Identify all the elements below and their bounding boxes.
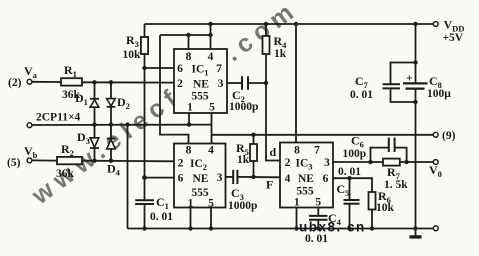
svg-text:555: 555: [191, 187, 209, 199]
junction dots Vb line: [92, 159, 113, 163]
svg-text:0. 01: 0. 01: [150, 211, 173, 223]
svg-text:1: 1: [294, 197, 300, 209]
svg-text:2CP11×4: 2CP11×4: [36, 112, 80, 124]
label R4 1k: [274, 34, 288, 60]
diode D2: [107, 82, 116, 124]
wire Va line to IC1 pin 2: [82, 81, 174, 83]
junction dots on VDD rail: [208, 22, 417, 26]
label C3 1000p: [228, 186, 257, 212]
label C5: [337, 182, 350, 198]
svg-text:4: 4: [208, 51, 214, 63]
wire x127.5 vertical to bottom rail: [127, 125, 129, 229]
capacitor C6: [371, 138, 407, 162]
svg-text:+5V: +5V: [443, 32, 464, 44]
IC1 pin and name texts: [177, 51, 224, 114]
svg-text:4: 4: [285, 173, 291, 185]
IC3 pin and name texts: [285, 145, 331, 209]
wire IC3 pin 1 to bottom rail: [296, 208, 298, 229]
watermark www.elecfans.com: [26, 0, 304, 210]
label C8 100u: [406, 73, 451, 101]
op-amp IC3 555 box: [280, 143, 333, 208]
wire IC2 pins 1,5 to bottom rail: [191, 208, 212, 229]
wire bottom ground rail: [128, 228, 434, 230]
resistor R7: [383, 159, 400, 166]
svg-text:0. 01: 0. 01: [350, 89, 373, 101]
svg-text:NE: NE: [193, 173, 209, 185]
svg-text:(5): (5): [7, 157, 21, 169]
svg-text:ubx8. cn: ubx8. cn: [299, 220, 366, 235]
wire Vb line to IC2 pin 2: [82, 160, 174, 163]
label D1: [75, 91, 88, 107]
svg-text:F: F: [266, 178, 273, 192]
svg-text:2: 2: [178, 158, 184, 170]
junction dot node F at R5 bottom: [251, 175, 255, 179]
svg-text:555: 555: [296, 186, 314, 198]
label R1 36k: [62, 63, 81, 101]
terminal VDD +5V: [433, 22, 438, 27]
svg-text:+: +: [406, 73, 413, 85]
junction dot C1 at ground rail: [142, 226, 146, 230]
junction dots R3 node / IC2 pin6 node: [142, 66, 147, 180]
label C4 0.01: [305, 211, 342, 245]
resistor R2: [57, 157, 82, 164]
svg-text:1: 1: [188, 198, 194, 210]
wire IC2 pin 3: [226, 176, 234, 178]
junction dot IC3 pin1 at ground rail: [294, 226, 298, 230]
label node F: [266, 178, 273, 192]
junction dots C7/C8 branch and ground: [413, 60, 417, 230]
wire VDD sub-line y35 to IC1 pins 8,4: [160, 24, 211, 49]
junction dot C5 at ground rail: [347, 226, 351, 230]
junction dots output node around R7: [368, 160, 409, 164]
svg-text:(2): (2): [8, 77, 22, 89]
svg-text:7: 7: [216, 63, 222, 75]
svg-text:7: 7: [314, 145, 320, 157]
resistor R4: [263, 24, 270, 83]
capacitor C1: [135, 178, 154, 229]
svg-text:6: 6: [178, 173, 184, 185]
label R6 10k: [376, 189, 395, 214]
wire IC3 pin 8 from rail: [295, 24, 297, 143]
svg-text:8: 8: [186, 51, 192, 63]
svg-text:5: 5: [209, 102, 215, 114]
label C7 0.01: [350, 74, 373, 101]
svg-text:6: 6: [177, 63, 183, 75]
svg-text:10k: 10k: [123, 49, 142, 61]
svg-text:0. 01: 0. 01: [305, 233, 328, 245]
junction dot C5 tap on pin6 line: [347, 176, 351, 180]
resistor R5: [250, 135, 257, 177]
svg-text:2: 2: [177, 78, 183, 90]
svg-text:100µ: 100µ: [427, 88, 451, 100]
svg-text:3: 3: [217, 172, 223, 184]
svg-text:3: 3: [218, 78, 224, 90]
capacitor C4: [309, 208, 328, 229]
label R5 1k: [236, 141, 250, 166]
svg-text:(9): (9): [442, 130, 456, 142]
capacitor C8 polarized: [403, 83, 428, 88]
op-amp IC2 555 box: [174, 144, 226, 208]
junction dots Va line: [92, 80, 113, 84]
label Va (2): [8, 64, 38, 89]
diode D3: [90, 125, 99, 161]
diode D1: [90, 82, 99, 124]
label Vo: [429, 163, 442, 179]
svg-text:3: 3: [324, 157, 330, 169]
capacitor C7: [383, 63, 416, 103]
wire R3 node vertical to IC2 pin 6: [145, 68, 175, 178]
label C1 0.01: [150, 195, 173, 223]
terminal (9): [433, 132, 438, 137]
label D4: [107, 162, 121, 178]
capacitor C3: [233, 170, 280, 184]
svg-text:5: 5: [208, 198, 214, 210]
svg-text:1000p: 1000p: [228, 200, 257, 212]
label C2 1000p: [229, 88, 258, 113]
terminal bottom right: [433, 226, 438, 231]
terminal Vb (5): [27, 158, 57, 163]
junction dot R5 top: [251, 133, 255, 137]
svg-text:4: 4: [208, 145, 214, 157]
watermark ubx8.cn dark: [299, 220, 366, 235]
op-amp IC1 555 box: [174, 49, 227, 113]
resistor R1: [61, 78, 82, 85]
capacitor C2: [227, 76, 266, 89]
label D3: [77, 130, 90, 146]
svg-text:0. 01: 0. 01: [338, 166, 361, 178]
label VDD: [443, 18, 465, 45]
label D2: [117, 95, 130, 111]
wire IC1 pin 1 stub: [188, 113, 190, 125]
diode D4: [107, 125, 116, 161]
label (9): [442, 130, 456, 142]
svg-text:8: 8: [294, 145, 300, 157]
label Vb (5): [7, 144, 38, 169]
label R2 36k: [56, 142, 75, 180]
label C6 100p: [343, 134, 367, 161]
svg-text:NE: NE: [193, 79, 209, 91]
label R7 1.5k: [384, 165, 408, 191]
svg-text:555: 555: [191, 91, 209, 103]
wire VDD top rail: [145, 23, 434, 25]
junction dots IC1 pins 8,4 supply: [186, 33, 212, 37]
svg-text:1: 1: [187, 102, 193, 114]
capacitor C5: [344, 178, 360, 228]
svg-text:1k: 1k: [237, 154, 250, 166]
svg-text:d: d: [270, 145, 277, 159]
junction dot C4 at ground rail: [316, 226, 320, 230]
svg-text:10k: 10k: [376, 202, 395, 214]
junction dot R6 at ground rail: [370, 226, 374, 230]
label 2CP11x4: [36, 112, 80, 124]
svg-text:100p: 100p: [343, 148, 367, 160]
junction dot node d at C2: [264, 81, 268, 85]
terminal Va (2): [27, 79, 61, 84]
wire node d vertical to IC3 pin 2: [266, 83, 280, 161]
svg-text:36k: 36k: [56, 168, 75, 180]
wire right VDD vertical: [415, 24, 417, 229]
wire IC3 pin 6: [333, 178, 372, 192]
wire x160 vertical to IC2 pin 8: [160, 35, 189, 144]
svg-text:NE: NE: [298, 173, 314, 185]
resistor R3: [141, 24, 148, 68]
svg-text:1k: 1k: [274, 48, 287, 60]
label node d: [270, 145, 277, 159]
wire IC1 pin 5 / node line to terminal 9: [212, 113, 434, 144]
label 0.01 above pin6 line: [338, 166, 361, 178]
svg-text:1. 5k: 1. 5k: [384, 179, 408, 191]
svg-text:1000p: 1000p: [229, 101, 258, 113]
terminal Vo: [433, 160, 438, 165]
wire IC3 pin 3 output line: [333, 161, 433, 163]
ground: [410, 229, 422, 237]
IC2 pin and name texts: [178, 145, 223, 210]
label R3 10k: [123, 33, 142, 61]
resistor R6: [369, 192, 376, 229]
junction dots 2CP line: [92, 122, 191, 126]
terminal 2CP11x4 input: [27, 123, 211, 128]
svg-text:2: 2: [285, 157, 291, 169]
svg-text:6: 6: [323, 173, 329, 185]
junction dots IC2 pins 1,5 at ground rail: [188, 226, 213, 230]
svg-text:5: 5: [315, 197, 321, 209]
svg-text:8: 8: [186, 145, 192, 157]
